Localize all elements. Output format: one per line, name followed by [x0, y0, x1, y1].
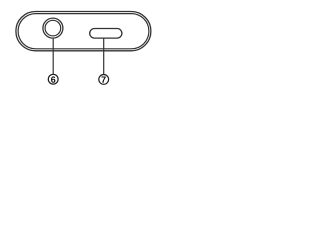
callout circle 7	[99, 75, 109, 85]
ring feature outer circle (item 6)	[43, 18, 63, 38]
leader line 7	[103, 38, 105, 74]
ring feature inner circle	[45, 20, 61, 36]
leader line 6	[52, 39, 54, 74]
callout number 6	[51, 76, 55, 82]
callout number 7	[101, 77, 105, 83]
device body inner outline	[18, 14, 149, 49]
port pill (item 7)	[90, 29, 122, 39]
device body outer outline	[16, 12, 151, 51]
callout circle 6	[48, 74, 58, 84]
